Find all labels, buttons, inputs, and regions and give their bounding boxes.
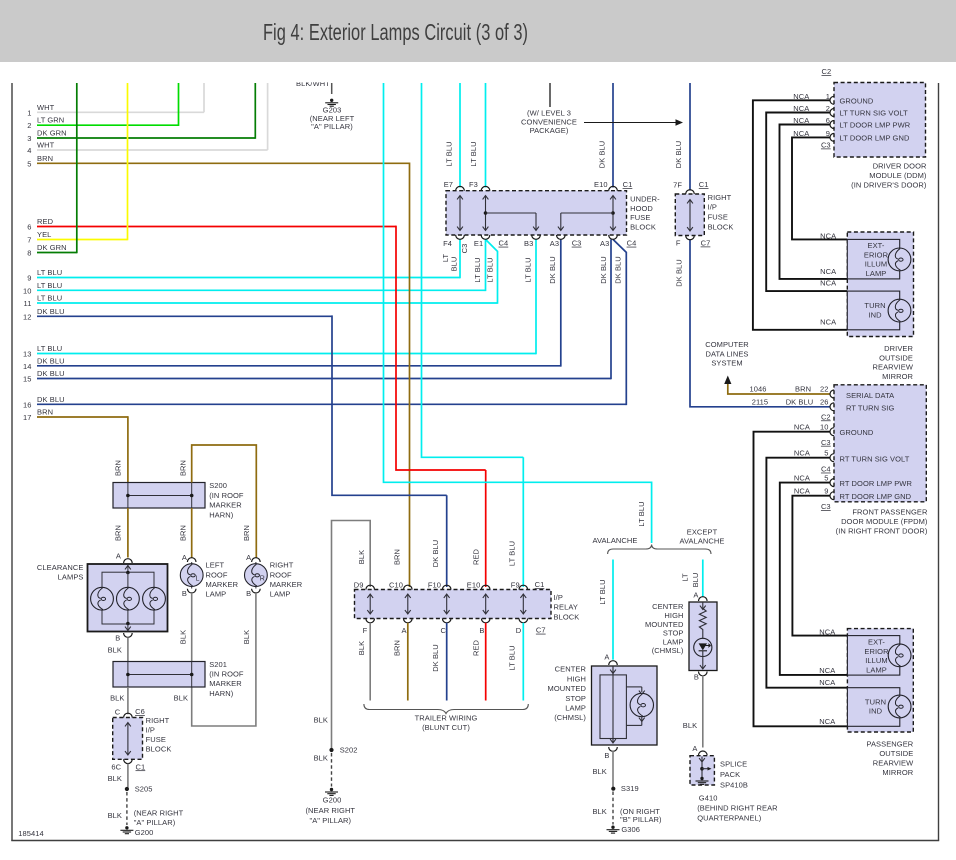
ground G200 symbol	[125, 826, 128, 829]
svg-text:BLOCK: BLOCK	[554, 612, 580, 621]
svg-text:A: A	[246, 553, 251, 562]
svg-text:DK BLU: DK BLU	[674, 141, 683, 169]
svg-text:C3: C3	[821, 438, 831, 447]
driver outside rearview mirror	[847, 232, 913, 337]
svg-text:FRONT PASSENGER: FRONT PASSENGER	[852, 507, 928, 516]
svg-text:C: C	[115, 708, 121, 717]
svg-text:ILLUM: ILLUM	[865, 656, 888, 665]
svg-text:17: 17	[23, 413, 32, 422]
svg-text:MOUNTED: MOUNTED	[548, 684, 587, 693]
arrow to DK BLU wire	[584, 122, 677, 124]
svg-text:2: 2	[826, 104, 830, 113]
splice S205	[125, 787, 129, 791]
svg-text:DK BLU: DK BLU	[786, 397, 814, 406]
svg-text:DK BLU: DK BLU	[431, 644, 440, 672]
svg-text:11: 11	[24, 299, 32, 308]
svg-text:DK GRN: DK GRN	[37, 243, 67, 252]
svg-text:DK BLU: DK BLU	[613, 256, 622, 284]
LT BLU wire to CHMSL (except avalanche)	[612, 560, 614, 660]
wire E1 to row 10	[485, 239, 487, 291]
svg-text:C1: C1	[136, 762, 146, 771]
svg-text:BLK: BLK	[683, 721, 697, 730]
ground G306 symbol	[611, 826, 614, 829]
svg-text:CENTER: CENTER	[652, 602, 684, 611]
svg-text:LT TURN SIG VOLT: LT TURN SIG VOLT	[840, 109, 909, 118]
BLK wire left marker B to S201	[191, 593, 193, 662]
dashed BLK wire to G306	[612, 792, 614, 825]
svg-text:LAMP: LAMP	[866, 665, 887, 674]
svg-text:DOOR MODULE (FPDM): DOOR MODULE (FPDM)	[841, 517, 928, 526]
ground G200 symbol	[330, 788, 333, 791]
svg-text:EXT-: EXT-	[868, 638, 885, 647]
svg-text:RIGHT: RIGHT	[708, 193, 732, 202]
svg-text:ROOF: ROOF	[206, 570, 228, 579]
svg-text:BLK: BLK	[110, 694, 124, 703]
svg-text:E7: E7	[444, 180, 453, 189]
svg-text:A: A	[402, 626, 407, 635]
wire NCA pin5 to turn ind	[766, 458, 847, 688]
svg-text:(W/ LEVEL 3: (W/ LEVEL 3	[527, 109, 571, 118]
lamp turn ind (passenger)	[888, 695, 911, 718]
svg-text:IND: IND	[869, 707, 883, 716]
BRN wire S200 to left roof marker lamp	[191, 508, 193, 558]
svg-text:PACKAGE): PACKAGE)	[530, 126, 569, 135]
wire E1 branch to row 11	[486, 239, 498, 303]
svg-text:RIGHT: RIGHT	[270, 561, 294, 570]
svg-text:9: 9	[824, 487, 828, 496]
wire A3/C3 to row 14	[560, 239, 562, 366]
passenger outside rearview mirror	[847, 629, 913, 732]
wire BRN trailer A	[407, 623, 409, 701]
ground G203 symbol	[330, 99, 333, 102]
svg-text:LAMP: LAMP	[663, 637, 684, 646]
svg-text:LT BLU: LT BLU	[37, 281, 62, 290]
svg-text:DK BLU: DK BLU	[431, 540, 440, 568]
svg-text:C3: C3	[460, 244, 469, 254]
wire row 13: LT BLU	[37, 353, 536, 355]
svg-text:PASSENGER: PASSENGER	[866, 740, 913, 749]
exterior illum lamp box	[847, 239, 899, 279]
pin F3	[481, 186, 490, 190]
pin 6C	[124, 759, 133, 763]
S200 bus	[128, 495, 192, 497]
pin D	[519, 619, 528, 623]
svg-text:MIRROR: MIRROR	[882, 768, 913, 777]
svg-text:"A" PILLAR): "A" PILLAR)	[311, 122, 353, 131]
internal bus E1 to B3	[484, 211, 488, 215]
svg-text:RIGHT: RIGHT	[146, 716, 170, 725]
splice S319	[611, 787, 615, 791]
lamp CHMSL bulb	[630, 693, 653, 716]
svg-text:B: B	[479, 626, 484, 635]
svg-text:5: 5	[824, 474, 828, 483]
BLK wire to S319	[612, 751, 614, 787]
svg-text:(IN DRIVER'S DOOR): (IN DRIVER'S DOOR)	[851, 181, 927, 190]
svg-text:NCA: NCA	[794, 423, 810, 432]
turn ind box	[847, 688, 899, 727]
svg-text:S200: S200	[209, 481, 227, 490]
svg-text:REARVIEW: REARVIEW	[873, 759, 914, 768]
svg-text:C2: C2	[822, 67, 832, 76]
wire DK BLU trailer C	[446, 623, 448, 701]
I/P relay block	[355, 590, 552, 619]
svg-text:NCA: NCA	[794, 487, 810, 496]
svg-text:NCA: NCA	[794, 449, 810, 458]
svg-text:LAMP: LAMP	[866, 269, 887, 278]
wire NCA pin1 GROUND to turn ind	[753, 100, 847, 329]
driver door module (DDM)	[834, 83, 926, 158]
svg-text:NCA: NCA	[793, 104, 809, 113]
wire row 5: BRN	[37, 162, 410, 164]
pin B3	[532, 235, 541, 239]
svg-text:NCA: NCA	[819, 666, 835, 675]
svg-text:14: 14	[23, 362, 32, 371]
svg-text:BLK: BLK	[242, 630, 251, 644]
pin A	[124, 559, 133, 563]
svg-text:TURN: TURN	[864, 301, 885, 310]
svg-text:C3: C3	[821, 141, 831, 150]
fuse element E7-F4	[459, 197, 461, 230]
wire row 2: LT GRN	[37, 124, 179, 126]
pin 7F	[686, 190, 695, 194]
svg-text:B: B	[182, 589, 187, 598]
svg-text:SYSTEM: SYSTEM	[711, 359, 742, 368]
lamp clearance left	[91, 587, 114, 610]
svg-text:"A" PILLAR): "A" PILLAR)	[309, 816, 351, 825]
svg-text:MODULE (DDM): MODULE (DDM)	[869, 171, 927, 180]
wire 3 riser	[254, 83, 256, 139]
svg-text:C1: C1	[699, 180, 709, 189]
wire F4 to row 9	[459, 239, 461, 278]
pin B	[124, 633, 133, 637]
svg-text:LT BLU: LT BLU	[486, 257, 495, 282]
svg-text:MARKER: MARKER	[209, 501, 242, 510]
wire row 10: LT BLU	[37, 289, 486, 291]
wire row 7: YEL	[37, 239, 128, 241]
svg-text:BLK: BLK	[592, 807, 606, 816]
svg-text:LT BLU: LT BLU	[524, 257, 533, 282]
svg-text:NCA: NCA	[793, 129, 809, 138]
wire NCA pin5 to illum lamp	[780, 483, 848, 675]
svg-text:BRN: BRN	[392, 640, 401, 656]
lamp exterior illum (driver)	[888, 248, 911, 271]
svg-text:B: B	[604, 751, 609, 760]
pin F	[686, 236, 695, 240]
wire RED trailer B	[485, 623, 487, 701]
pin A3 (C3)	[557, 235, 566, 239]
svg-text:A: A	[692, 744, 697, 753]
svg-text:RT TURN SIG: RT TURN SIG	[846, 403, 894, 412]
svg-text:BLK: BLK	[357, 641, 366, 655]
svg-text:G200: G200	[323, 796, 342, 805]
under-hood fuse block	[446, 191, 627, 235]
svg-text:DK BLU: DK BLU	[599, 256, 608, 284]
svg-text:10: 10	[23, 286, 32, 295]
svg-text:RT TURN SIG VOLT: RT TURN SIG VOLT	[840, 454, 910, 463]
svg-text:BRN: BRN	[37, 154, 53, 163]
svg-text:LAMPS: LAMPS	[58, 572, 84, 581]
svg-text:26: 26	[820, 397, 829, 406]
svg-text:F: F	[363, 626, 368, 635]
svg-text:C1: C1	[535, 580, 545, 589]
svg-text:LEFT: LEFT	[206, 561, 225, 570]
svg-text:(NEAR RIGHT: (NEAR RIGHT	[305, 806, 355, 815]
svg-text:G410: G410	[699, 794, 718, 803]
wire row 1: WHT	[37, 111, 204, 113]
DK BLU to 7F right I/P fuse block	[689, 83, 691, 191]
wire 12 DK BLU route to I/P relay F10	[332, 315, 447, 495]
wire stub to G203	[331, 83, 333, 94]
svg-text:LT BLU: LT BLU	[473, 257, 482, 282]
wire BLK trailer F	[369, 623, 371, 701]
fuse element E10-A3	[612, 197, 614, 230]
wire NCA pin10 GROUND to turn ind	[754, 432, 848, 727]
wire row 3: DK GRN	[37, 137, 255, 139]
svg-text:9: 9	[27, 274, 31, 283]
svg-text:BLK: BLK	[108, 646, 122, 655]
svg-text:1: 1	[27, 108, 31, 117]
pin F9	[519, 585, 528, 589]
svg-text:(IN RIGHT FRONT DOOR): (IN RIGHT FRONT DOOR)	[836, 526, 928, 535]
svg-text:TRAILER WIRING: TRAILER WIRING	[415, 714, 478, 723]
svg-text:EXT-: EXT-	[868, 241, 885, 250]
pin F	[366, 619, 375, 623]
svg-text:C10: C10	[389, 581, 403, 590]
svg-text:BLK: BLK	[314, 716, 328, 725]
svg-text:BLK: BLK	[178, 630, 187, 644]
BLK wire to S205	[127, 764, 129, 788]
svg-text:MOUNTED: MOUNTED	[645, 620, 684, 629]
svg-text:EXCEPT: EXCEPT	[687, 527, 718, 536]
svg-text:A: A	[116, 552, 121, 561]
svg-text:D: D	[516, 626, 522, 635]
svg-text:BRN: BRN	[113, 525, 122, 541]
pin E10	[609, 186, 618, 190]
svg-text:LT BLU: LT BLU	[37, 268, 62, 277]
svg-text:C3: C3	[821, 502, 831, 511]
wire row 8: DK GRN	[37, 252, 77, 254]
splice S201 (in roof marker harn)	[113, 662, 205, 688]
svg-text:R: R	[260, 576, 265, 583]
DK BLU from F/C7 to FPDM pin 26	[690, 240, 830, 407]
right I/P fuse block (upper)	[675, 194, 704, 236]
svg-text:L: L	[196, 576, 200, 583]
svg-text:QUARTERPANEL): QUARTERPANEL)	[697, 813, 762, 822]
svg-text:GROUND: GROUND	[840, 96, 874, 105]
svg-text:7F: 7F	[673, 180, 682, 189]
svg-text:BLK: BLK	[108, 811, 122, 820]
svg-text:2: 2	[27, 121, 31, 130]
svg-text:C6: C6	[135, 707, 145, 716]
svg-text:A: A	[604, 653, 609, 662]
wire 1 riser	[203, 83, 205, 112]
svg-text:NCA: NCA	[820, 318, 836, 327]
wire 4 riser	[267, 83, 269, 150]
svg-text:DK BLU: DK BLU	[675, 259, 684, 287]
svg-text:A3: A3	[600, 239, 609, 248]
svg-text:S205: S205	[135, 785, 153, 794]
svg-text:HIGH: HIGH	[664, 611, 683, 620]
svg-text:BLK: BLK	[108, 774, 122, 783]
svg-text:DK BLU: DK BLU	[37, 369, 65, 378]
svg-text:4: 4	[27, 146, 31, 155]
svg-text:NCA: NCA	[819, 678, 835, 687]
svg-text:NCA: NCA	[793, 92, 809, 101]
pin E1	[481, 235, 490, 239]
svg-text:C4: C4	[499, 239, 509, 248]
svg-text:BRN: BRN	[795, 385, 811, 394]
svg-text:16: 16	[23, 400, 32, 409]
svg-text:E1: E1	[474, 239, 483, 248]
svg-text:C4: C4	[821, 465, 831, 474]
svg-text:RED: RED	[37, 217, 54, 226]
wire NCA pin6 to illum lamp	[780, 125, 848, 279]
svg-text:185414: 185414	[18, 829, 44, 838]
svg-text:YEL: YEL	[37, 230, 51, 239]
svg-text:CONVENIENCE: CONVENIENCE	[521, 118, 577, 127]
svg-text:E10: E10	[594, 180, 608, 189]
LT BLU to E7	[459, 83, 461, 188]
svg-text:NCA: NCA	[819, 717, 835, 726]
svg-text:RED: RED	[471, 548, 480, 565]
svg-text:5: 5	[27, 159, 31, 168]
pin B	[481, 619, 490, 623]
wire row 11: LT BLU	[37, 302, 498, 304]
svg-text:ILLUM: ILLUM	[865, 260, 888, 269]
svg-text:22: 22	[820, 385, 829, 394]
svg-text:NCA: NCA	[819, 628, 835, 637]
wire row 17: BRN	[37, 416, 128, 418]
svg-text:LAMP: LAMP	[270, 590, 291, 599]
svg-text:C7: C7	[701, 239, 711, 248]
svg-text:B3: B3	[524, 239, 533, 248]
svg-text:6: 6	[27, 223, 31, 232]
lamp clearance center	[117, 587, 140, 610]
wire row 15: DK BLU	[37, 378, 611, 380]
BLK wire right marker B to S201 loop	[192, 593, 256, 726]
svg-text:A: A	[182, 553, 187, 562]
pin A	[609, 661, 618, 665]
diagram frame border	[11, 83, 13, 841]
wire 7 riser	[127, 83, 129, 240]
wire NCA pin9 to illum lamp	[792, 496, 847, 636]
svg-text:REARVIEW: REARVIEW	[872, 363, 913, 372]
svg-text:(BEHIND RIGHT REAR: (BEHIND RIGHT REAR	[697, 803, 778, 812]
svg-text:I/P: I/P	[554, 593, 563, 602]
svg-text:(IN ROOF: (IN ROOF	[209, 491, 244, 500]
lamp clearance right	[143, 587, 166, 610]
svg-text:HOOD: HOOD	[630, 204, 653, 213]
pin D9	[366, 585, 375, 589]
svg-text:LAMP: LAMP	[565, 704, 586, 713]
svg-text:C7: C7	[536, 626, 546, 635]
svg-text:6C: 6C	[111, 763, 121, 772]
svg-text:Fig 4: Exterior Lamps Circuit: Fig 4: Exterior Lamps Circuit (3 of 3)	[263, 20, 528, 45]
BLK wire D9 to S202 and G200	[332, 521, 371, 750]
svg-text:LT BLU: LT BLU	[637, 501, 646, 526]
svg-text:SERIAL DATA: SERIAL DATA	[846, 391, 894, 400]
wire B3 to row 13	[535, 239, 537, 354]
wire NCA pin2 to turn ind	[766, 113, 847, 292]
wire LT BLU trailer D	[522, 623, 524, 701]
svg-text:STOP: STOP	[565, 694, 586, 703]
fuse element C-6C	[127, 724, 129, 755]
svg-text:ERIOR: ERIOR	[864, 250, 889, 259]
svg-text:MARKER: MARKER	[270, 580, 303, 589]
svg-text:C1: C1	[623, 180, 633, 189]
svg-text:HIGH: HIGH	[567, 674, 586, 683]
svg-text:RT DOOR LMP PWR: RT DOOR LMP PWR	[840, 479, 913, 488]
svg-text:FUSE: FUSE	[708, 213, 728, 222]
wire A3/C4 branch to row 16	[613, 239, 626, 405]
svg-text:B: B	[694, 673, 699, 682]
dashed BLK wire to G200	[126, 792, 128, 825]
svg-text:13: 13	[23, 350, 32, 359]
svg-text:BRN: BRN	[392, 549, 401, 565]
wire 6 RED route to I/P relay E10	[396, 226, 486, 470]
svg-text:B: B	[246, 589, 251, 598]
svg-text:CENTER: CENTER	[555, 665, 587, 674]
svg-text:PACK: PACK	[720, 770, 740, 779]
lamp housing	[600, 675, 626, 739]
svg-text:RELAY: RELAY	[554, 603, 578, 612]
svg-text:BLU: BLU	[691, 573, 700, 588]
svg-text:NCA: NCA	[820, 279, 836, 288]
svg-text:DRIVER DOOR: DRIVER DOOR	[873, 162, 927, 171]
svg-text:DATA LINES: DATA LINES	[705, 349, 748, 358]
svg-text:LT BLU: LT BLU	[37, 344, 62, 353]
wire stub (W/ LEVEL 3)	[549, 83, 551, 107]
wire row 4: WHT	[37, 149, 268, 151]
svg-text:MARKER: MARKER	[206, 580, 239, 589]
svg-text:AVALANCHE: AVALANCHE	[592, 536, 637, 545]
svg-text:(NEAR RIGHT: (NEAR RIGHT	[134, 809, 184, 818]
svg-text:BLK: BLK	[314, 754, 328, 763]
svg-text:D9: D9	[354, 581, 364, 590]
svg-text:12: 12	[23, 312, 32, 321]
right I/P fuse block (lower)	[113, 718, 143, 760]
trailer wiring brace	[364, 704, 528, 714]
svg-text:MIRROR: MIRROR	[882, 372, 913, 381]
turn ind box	[847, 291, 899, 330]
pin F10	[442, 585, 451, 589]
svg-text:RT DOOR LMP GND: RT DOOR LMP GND	[840, 492, 912, 501]
wire row 16: DK BLU	[37, 403, 626, 405]
svg-text:OUTSIDE: OUTSIDE	[879, 353, 913, 362]
svg-text:DK BLU: DK BLU	[37, 356, 65, 365]
pin A	[404, 619, 413, 623]
svg-text:LT DOOR LMP GND: LT DOOR LMP GND	[840, 133, 910, 142]
svg-text:BLOCK: BLOCK	[630, 222, 656, 231]
wire 1046 BRN serial data	[728, 384, 830, 394]
svg-text:LT BLU: LT BLU	[507, 541, 516, 566]
svg-text:7: 7	[27, 236, 31, 245]
clearance lamps	[88, 564, 168, 632]
pin B	[609, 747, 618, 751]
pin C10	[404, 585, 413, 589]
pin A	[699, 597, 708, 601]
svg-text:BLU: BLU	[450, 257, 459, 272]
svg-text:(CHMSL): (CHMSL)	[652, 646, 684, 655]
svg-text:OUTSIDE: OUTSIDE	[879, 749, 913, 758]
wire 17 BRN drop to S200	[127, 416, 129, 483]
pin E7	[456, 186, 465, 190]
svg-text:(CHMSL): (CHMSL)	[554, 713, 586, 722]
svg-text:9: 9	[826, 129, 830, 138]
svg-text:LT BLU: LT BLU	[598, 579, 607, 604]
svg-text:LT BLU: LT BLU	[507, 645, 516, 670]
svg-text:C4: C4	[627, 239, 637, 248]
